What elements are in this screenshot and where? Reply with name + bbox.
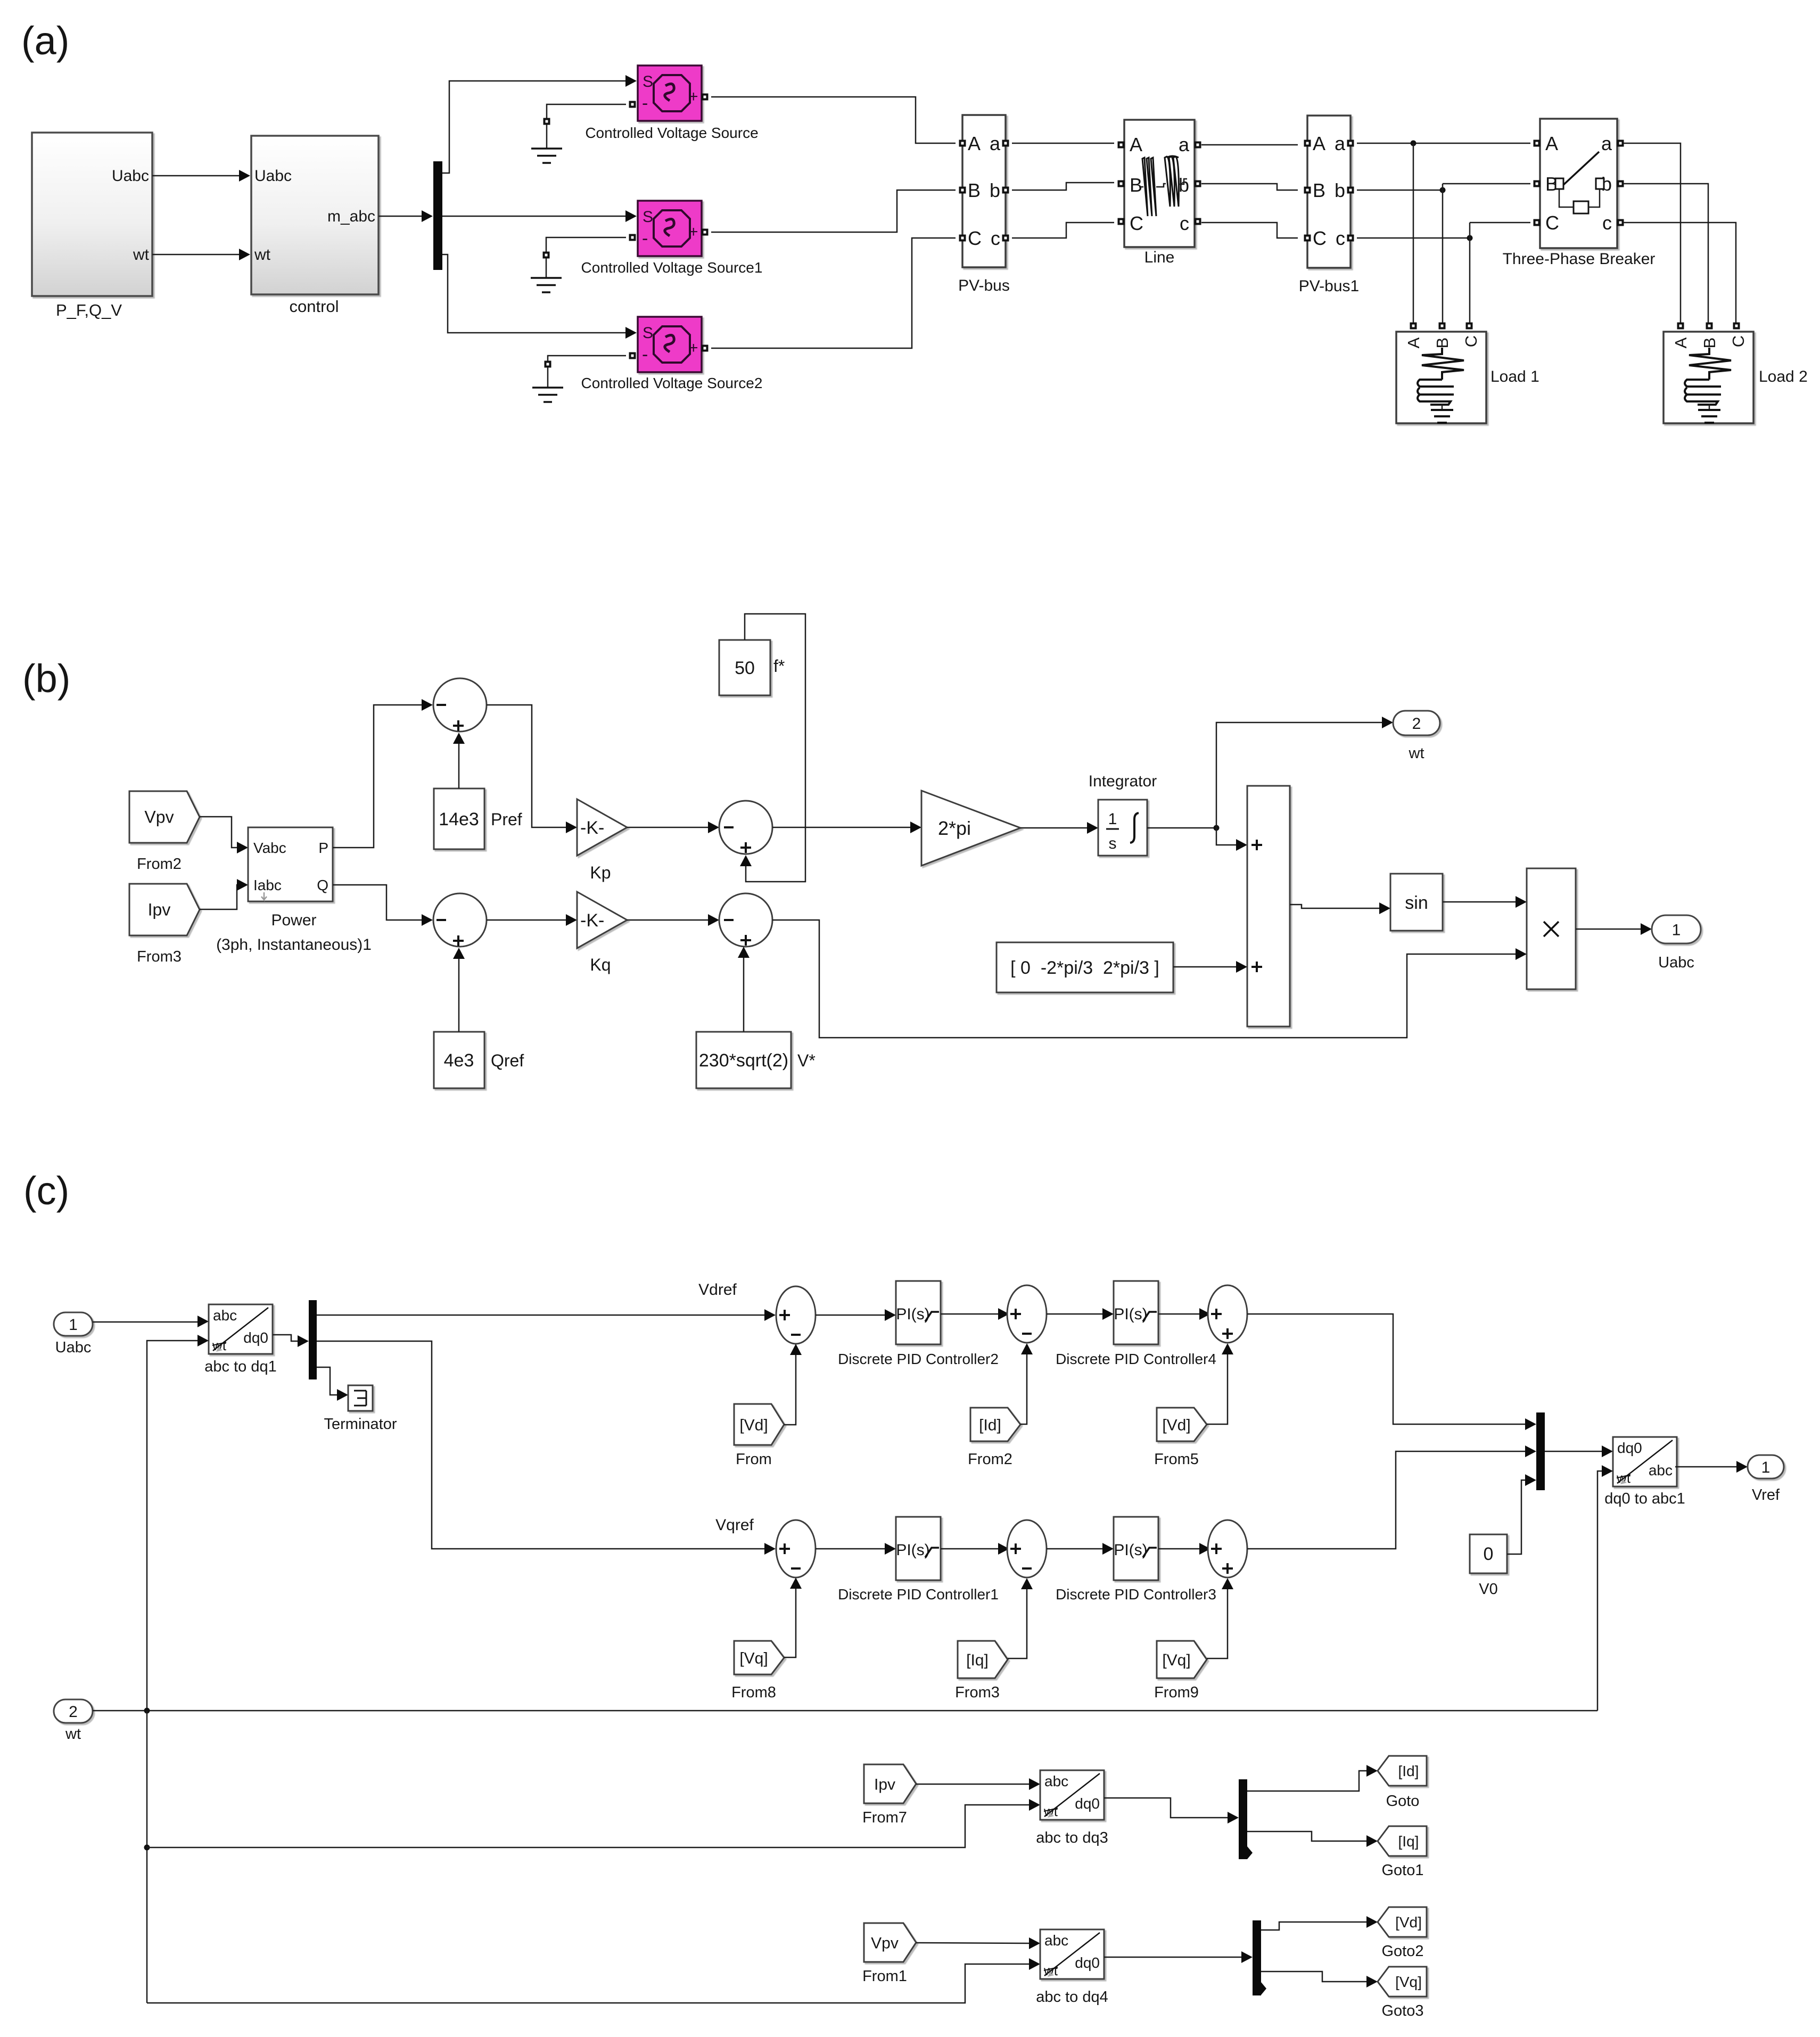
arrowhead PID1 in: [885, 1543, 896, 1555]
ground symbol 2: [531, 237, 626, 292]
arrowhead sin in: [1379, 902, 1390, 914]
svg-text:PI(s): PI(s): [896, 1305, 929, 1323]
arrowhead Goto3 Vq: [1366, 1976, 1378, 1987]
svg-text:[Iq]: [Iq]: [1398, 1833, 1419, 1850]
wire sum to sin: [1290, 905, 1381, 908]
block PV-bus: [958, 115, 1010, 294]
label Vdref: [698, 1281, 737, 1299]
svg-text:wt: wt: [133, 246, 150, 264]
sum block (wt + phase): [1247, 786, 1290, 1026]
sum junction Iq compare: [1007, 1520, 1047, 1578]
block abc to dq4: [1036, 1929, 1108, 2006]
svg-text:(c): (c): [23, 1169, 69, 1213]
wire demux to Goto3 Vq: [1261, 1972, 1368, 1982]
svg-text:a: a: [990, 133, 1001, 154]
wire CVS1 plus to PV-bus B: [711, 190, 956, 232]
wire drop to Load 1 A: [1413, 143, 1414, 323]
wire PV-bus1 c toward Breaker C: [1357, 237, 1470, 239]
wire Kp to freq sum: [627, 827, 710, 828]
svg-text:From5: From5: [1154, 1451, 1199, 1468]
wire [Id] to sum: [1020, 1353, 1027, 1424]
from tag Ipv (From7): [862, 1764, 916, 1826]
wire Breaker c to Load 2 C: [1624, 223, 1736, 323]
svg-text:Integrator: Integrator: [1089, 773, 1157, 790]
junction node wt: [1214, 825, 1220, 831]
arrowhead dq0abc wt: [1602, 1465, 1613, 1477]
wire wt P_F,Q_V to control: [152, 254, 241, 256]
junction node wt-1: [144, 1708, 150, 1714]
wire V sum to product: [772, 920, 1517, 1038]
wire wt main run: [93, 1710, 1597, 1712]
svg-text:[Vd]: [Vd]: [1395, 1914, 1422, 1931]
svg-text:dq0 to abc1: dq0 to abc1: [1604, 1490, 1685, 1507]
svg-text:Discrete PID Controller3: Discrete PID Controller3: [1056, 1586, 1216, 1603]
wire Vpv to abc to dq4: [916, 1943, 1031, 1943]
block dq0 to abc1: [1604, 1437, 1685, 1507]
arrowhead Vd sum bottom: [790, 1344, 802, 1355]
arrowhead Id sum bottom: [1021, 1343, 1033, 1354]
arrowhead PID2 in: [885, 1309, 896, 1321]
svg-text:1: 1: [1108, 810, 1117, 828]
wire P to sum1: [333, 705, 423, 848]
wire Line c to PV-bus1 C: [1201, 223, 1298, 238]
svg-text:Goto3: Goto3: [1382, 2002, 1424, 2019]
arrowhead Vref up: [738, 947, 750, 958]
svg-text:Discrete PID Controller1: Discrete PID Controller1: [838, 1586, 999, 1603]
svg-text:From2: From2: [137, 856, 182, 873]
svg-text:Load 1: Load 1: [1490, 368, 1539, 385]
arrowhead Iq sum bottom: [1021, 1578, 1033, 1589]
wire Uabc P_F,Q_V to control: [152, 175, 241, 177]
from tag [Iq] (From3): [955, 1641, 1008, 1701]
arrowhead demux c3 in: [1228, 1812, 1239, 1824]
svg-text:Vdref: Vdref: [698, 1281, 737, 1299]
svg-text:4e3: 4e3: [444, 1050, 474, 1071]
wire PID1 sum to PID3: [1047, 1548, 1104, 1550]
arrowhead dq1 wt: [197, 1335, 209, 1346]
panel label (b): [22, 656, 70, 701]
wire PV-bus c to Line C: [1012, 223, 1114, 238]
junction node a-Load1A: [1411, 141, 1417, 146]
block Power (3ph, Instantaneous)1: [216, 827, 372, 954]
junction node c-Load1C: [1467, 235, 1473, 241]
wire dq1 out to demux: [273, 1335, 299, 1341]
svg-text:control: control: [289, 297, 339, 316]
wire Line b to PV-bus1 B: [1201, 184, 1298, 190]
block abc to dq3: [1036, 1770, 1108, 1846]
svg-text:Goto: Goto: [1386, 1793, 1420, 1810]
svg-text:-: -: [642, 93, 648, 113]
wire [Iq] to sum: [1008, 1588, 1027, 1658]
from tag Ipv (From3): [129, 884, 200, 965]
wire 4e3 to sumQ: [458, 957, 460, 1032]
arrowhead demux c1 in: [298, 1335, 309, 1347]
arrowhead Goto1 Iq: [1366, 1835, 1378, 1847]
panel label (c): [23, 1169, 69, 1213]
svg-text:[Vq]: [Vq]: [1162, 1652, 1190, 1669]
block Discrete PID Controller1: [838, 1517, 999, 1603]
svg-text:From3: From3: [955, 1684, 1000, 1701]
svg-text:2*pi: 2*pi: [938, 817, 971, 839]
arrowhead mux in1: [1525, 1418, 1536, 1430]
svg-text:S: S: [643, 73, 653, 91]
svg-text:A: A: [1545, 133, 1558, 154]
block Discrete PID Controller4: [1056, 1281, 1216, 1367]
arrowhead freq sum in: [708, 822, 719, 833]
arrowhead 2*pi in: [910, 822, 921, 833]
arrowhead PID4 in: [1102, 1308, 1114, 1320]
svg-text:[Vq]: [Vq]: [739, 1650, 768, 1668]
wire demux to Vq sum: [317, 1341, 766, 1549]
arrowhead outport2: [1382, 717, 1393, 728]
arrowhead CVS2 S: [625, 327, 637, 339]
wire 230*sqrt(2) to V sum: [743, 956, 745, 1032]
outport 1 (Vref): [1748, 1455, 1784, 1504]
gain Kq: [577, 892, 627, 974]
svg-text:C: C: [1729, 335, 1748, 347]
svg-text:Ipv: Ipv: [148, 900, 171, 919]
svg-text:1: 1: [1761, 1459, 1770, 1476]
svg-text:2: 2: [1412, 715, 1421, 733]
svg-text:sin: sin: [1405, 893, 1428, 913]
svg-text:Qref: Qref: [491, 1051, 524, 1070]
svg-text:m_abc: m_abc: [327, 208, 375, 225]
svg-text:Terminator: Terminator: [324, 1416, 397, 1433]
gain Kp: [577, 799, 627, 882]
wire [Vq] to sum: [784, 1587, 796, 1657]
svg-text:abc: abc: [1044, 1932, 1068, 1949]
svg-text:Controlled Voltage Source1: Controlled Voltage Source1: [581, 259, 763, 276]
wire CVS plus to PV-bus A: [711, 97, 956, 143]
svg-text:14e3: 14e3: [439, 809, 479, 829]
inport 1 (Uabc): [54, 1312, 93, 1356]
svg-text:Line: Line: [1144, 249, 1175, 266]
wire dq0 to abc1 out: [1675, 1466, 1738, 1468]
from tag [Vd] (From5): [1154, 1408, 1207, 1468]
sum junction Vqref: [776, 1520, 816, 1578]
wire wt to phase sum: [1216, 828, 1238, 845]
svg-text:C: C: [968, 227, 982, 249]
arrowhead Kp in: [566, 822, 577, 833]
svg-text:c: c: [1336, 227, 1345, 249]
arrowhead dq4 abc: [1029, 1937, 1040, 1949]
wire 14e3 to sum1: [458, 742, 460, 788]
demux bar (Vdq): [1253, 1920, 1266, 1995]
panel label (a): [21, 19, 69, 63]
svg-text:b: b: [1179, 174, 1189, 196]
goto tag [Vq] (Goto3): [1378, 1967, 1427, 2019]
svg-text:[Iq]: [Iq]: [966, 1652, 989, 1669]
arrowhead Goto2 Vd: [1366, 1916, 1378, 1928]
svg-text:(b): (b): [22, 656, 70, 701]
svg-text:a: a: [1179, 134, 1190, 155]
svg-text:A: A: [968, 133, 981, 154]
arrowhead Iabc: [237, 879, 248, 891]
arrowhead Terminator in: [337, 1389, 348, 1401]
arrowhead Vq2 sum bottom: [1222, 1578, 1233, 1589]
wire PV-bus b to Line B: [1012, 183, 1114, 190]
wire Kq to V sum: [627, 919, 710, 921]
arrowhead sum1 in: [422, 699, 433, 711]
wire Integrator out: [1147, 827, 1216, 829]
svg-text:From7: From7: [862, 1809, 907, 1826]
port square CVS minus: [629, 101, 636, 108]
product block X: [1527, 868, 1576, 989]
wire Q to sumQ: [333, 885, 423, 920]
arrowhead dq4 wt: [1029, 1958, 1040, 1970]
arrowhead Integrator in: [1087, 822, 1098, 834]
wire Vd sum to PID2: [816, 1315, 886, 1316]
arrowhead product in1: [1516, 896, 1527, 908]
svg-text:[Vd]: [Vd]: [739, 1417, 768, 1434]
wire V0 to mux: [1507, 1480, 1527, 1554]
svg-text:50: 50: [735, 658, 755, 678]
svg-text:1: 1: [1672, 922, 1681, 939]
wire PV-bus a to Line A: [1012, 143, 1114, 144]
svg-text:B: B: [968, 179, 981, 201]
svg-text:s: s: [1109, 835, 1117, 852]
svg-text:S: S: [643, 324, 653, 342]
arrowhead sum Iq in: [998, 1543, 1009, 1555]
svg-text:abc to dq4: abc to dq4: [1036, 1989, 1108, 2006]
svg-text:A: A: [1313, 133, 1325, 154]
sum junction Vd feedforward: [1208, 1285, 1247, 1343]
wire m_abc control to demux: [378, 216, 423, 217]
demux bar (Idq): [1239, 1779, 1253, 1859]
outport 1 (Uabc): [1652, 915, 1701, 971]
from tag [Vq] (From8): [731, 1641, 784, 1701]
svg-text:B: B: [1130, 174, 1142, 196]
mux bar (dq0 combine): [1536, 1412, 1545, 1490]
subsystem block P_F,Q_V: [32, 133, 152, 319]
ground symbol 3: [532, 356, 626, 402]
wire Vq path to mux: [1247, 1451, 1527, 1549]
svg-text:A: A: [1404, 337, 1423, 348]
svg-text:From2: From2: [968, 1451, 1012, 1468]
svg-text:c: c: [991, 227, 1000, 249]
svg-text:Uabc: Uabc: [112, 167, 149, 185]
arrowhead CVS S: [625, 75, 637, 87]
junction node wt-2: [144, 1845, 150, 1851]
wire wt branch to abc to dq3: [147, 1805, 1031, 1847]
wire wt vertical: [146, 1711, 148, 2003]
wire demux to Goto1 Iq: [1247, 1831, 1368, 1841]
wire demux out2 to CVS1 S: [442, 216, 627, 217]
wire sumQ to Kq: [487, 919, 567, 921]
svg-text:From1: From1: [862, 1968, 907, 1985]
svg-text:b: b: [990, 179, 1000, 201]
svg-text:C: C: [1545, 212, 1559, 234]
svg-text:2: 2: [69, 1703, 78, 1721]
svg-text:dq0: dq0: [1617, 1440, 1642, 1456]
arrowhead Vd2 sum bottom: [1222, 1343, 1233, 1354]
from tag [Vq] (From9): [1154, 1641, 1207, 1701]
sum junction 4 (voltage): [719, 893, 772, 947]
svg-text:dq0: dq0: [243, 1329, 268, 1346]
port square CVS1 minus: [629, 234, 636, 241]
svg-text:dq0: dq0: [1075, 1954, 1100, 1971]
svg-text:-K-: -K-: [580, 910, 604, 931]
constant block [ 0 -2*pi/3 2*pi/3 ]: [997, 942, 1173, 992]
svg-text:c: c: [1180, 212, 1189, 234]
block Load 2: [1663, 323, 1808, 424]
svg-text:[Vq]: [Vq]: [1395, 1974, 1422, 1990]
svg-text:Discrete PID Controller4: Discrete PID Controller4: [1056, 1351, 1216, 1367]
port square CVS2 minus: [629, 352, 636, 359]
svg-text:[Vd]: [Vd]: [1162, 1417, 1190, 1434]
svg-text:[Id]: [Id]: [979, 1417, 1001, 1434]
gain 2*pi: [921, 791, 1020, 866]
from tag [Id] (From2): [968, 1408, 1020, 1468]
svg-text:B: B: [1700, 338, 1719, 349]
sum junction Vq feedforward: [1208, 1520, 1247, 1578]
svg-text:PV-bus1: PV-bus1: [1299, 277, 1359, 295]
wire [Vd] to sum: [784, 1353, 796, 1425]
svg-text:a: a: [1335, 133, 1346, 154]
svg-text:230*sqrt(2): 230*sqrt(2): [699, 1050, 788, 1071]
svg-text:abc: abc: [1649, 1462, 1673, 1479]
arrowhead mux in3: [1525, 1474, 1536, 1486]
block Discrete PID Controller3: [1056, 1517, 1216, 1603]
wire f* loop to freq sum plus: [745, 614, 805, 882]
svg-text:wt: wt: [254, 246, 271, 264]
label Vqref: [715, 1516, 754, 1534]
svg-text:[Id]: [Id]: [1398, 1763, 1419, 1779]
svg-text:(a): (a): [21, 19, 69, 63]
svg-text:PI(s): PI(s): [1114, 1541, 1147, 1559]
svg-text:abc: abc: [1044, 1773, 1068, 1789]
svg-text:From8: From8: [731, 1684, 776, 1701]
svg-text:+: +: [689, 88, 698, 105]
wire demux to Vd sum: [317, 1315, 766, 1316]
block Discrete PID Controller2: [838, 1281, 999, 1367]
svg-text:From: From: [736, 1451, 772, 1468]
svg-text:+: +: [689, 223, 698, 241]
goto tag [Vd] (Goto2): [1378, 1907, 1427, 1960]
wire product to outport 1: [1576, 929, 1642, 930]
sum junction 3 (Q compare): [433, 893, 487, 947]
wire riser and drop Load 1 B: [1442, 184, 1444, 323]
svg-text:(3ph, Instantaneous)1: (3ph, Instantaneous)1: [216, 936, 372, 954]
arrowhead dq3 wt: [1029, 1799, 1040, 1811]
sum junction 1 (P compare): [433, 678, 487, 732]
svg-text:Iabc: Iabc: [253, 877, 282, 893]
svg-text:Uabc: Uabc: [1658, 954, 1694, 971]
wire dq3 out to demux: [1104, 1798, 1229, 1818]
svg-text:C: C: [1462, 335, 1480, 347]
arrowhead outport Vref: [1736, 1461, 1748, 1473]
wire [Vd]2 to sum: [1207, 1353, 1228, 1424]
arrowhead sum Id in: [998, 1308, 1009, 1320]
svg-text:C: C: [1130, 212, 1143, 234]
wire PID1 to sum: [941, 1548, 1000, 1550]
wire Vq sum to PID1: [816, 1548, 886, 1550]
arrowhead 4e3 up: [453, 948, 465, 959]
wire demux out3 to CVS2 S: [442, 254, 627, 333]
svg-text:b: b: [1335, 179, 1345, 201]
svg-text:+: +: [689, 339, 698, 357]
svg-text:Pref: Pref: [491, 810, 522, 829]
arrowhead Vd sum in: [764, 1309, 776, 1321]
svg-text:wt: wt: [1409, 745, 1424, 762]
wire to outport 2 wt: [1216, 722, 1383, 828]
svg-text:Uabc: Uabc: [254, 167, 292, 185]
svg-text:dq0: dq0: [1075, 1795, 1100, 1812]
block PV-bus1: [1299, 116, 1359, 295]
wire [Vq]2 to sum: [1207, 1588, 1228, 1658]
wire Breaker b to Load 2 B: [1624, 184, 1708, 323]
wire PID3 to sum: [1158, 1548, 1201, 1550]
svg-text:Controlled Voltage Source: Controlled Voltage Source: [585, 125, 758, 141]
arrowhead CVS1 S: [625, 210, 637, 222]
wire sin to product: [1443, 901, 1517, 903]
svg-text:Kp: Kp: [590, 863, 611, 882]
block Terminator: [324, 1385, 397, 1433]
block Controlled Voltage Source2: [581, 317, 763, 391]
wire wt to dq0 to abc1: [1597, 1471, 1603, 1711]
wire phase const to sum: [1173, 966, 1238, 968]
arrowhead sumQ in: [422, 914, 433, 926]
wire Ipv to Power Iabc: [200, 885, 238, 909]
svg-text:Vpv: Vpv: [871, 1935, 899, 1952]
wire wt branch to abc to dq4: [147, 1964, 1031, 2003]
constant block 0 (V0): [1470, 1534, 1507, 1598]
wire mux to dq0 to abc1: [1545, 1451, 1603, 1452]
wire freq sum to 2*pi: [772, 827, 912, 828]
demux bar (panel a): [433, 161, 442, 270]
svg-text:wt: wt: [65, 1726, 81, 1743]
wire PV-bus1 b toward Breaker B: [1357, 190, 1443, 191]
wire to Breaker B: [1443, 183, 1530, 185]
wire PID2 to sum: [941, 1313, 1000, 1315]
wire PID2 sum to PID4: [1047, 1313, 1104, 1315]
subsystem block control: [251, 136, 378, 316]
svg-text:Power: Power: [271, 911, 316, 929]
svg-text:c: c: [1602, 212, 1612, 234]
wire PV-bus1 a to Breaker A: [1357, 143, 1530, 144]
svg-text:V*: V*: [797, 1051, 816, 1070]
block sin: [1390, 874, 1443, 931]
svg-text:Vref: Vref: [1752, 1486, 1780, 1504]
svg-text:-: -: [642, 344, 648, 365]
wire demux to Goto2 Vd: [1261, 1922, 1368, 1930]
arrowhead f* up: [740, 855, 752, 866]
svg-text:Ipv: Ipv: [874, 1776, 895, 1794]
demux bar (Uabc dq): [309, 1300, 317, 1379]
arrowhead sum Vq2 in: [1199, 1543, 1210, 1555]
svg-text:abc to dq3: abc to dq3: [1036, 1829, 1108, 1846]
constant block 50 (f*): [719, 640, 785, 695]
arrowhead V sum in: [708, 914, 719, 926]
sum junction 2 (frequency): [719, 801, 772, 854]
wire PID4 to sum: [1158, 1313, 1201, 1315]
from tag Vpv (From2): [129, 791, 200, 873]
block Controlled Voltage Source1: [581, 201, 763, 276]
svg-text:0: 0: [1484, 1544, 1494, 1564]
outport 2 (wt): [1393, 711, 1440, 762]
arrowhead phase sum in2: [1236, 961, 1247, 973]
block Load 1: [1396, 323, 1539, 424]
svg-text:a: a: [1601, 133, 1612, 154]
svg-text:B: B: [1433, 338, 1452, 349]
wire Line a to PV-bus1 A: [1201, 144, 1298, 146]
arrowhead PID3 in: [1102, 1543, 1114, 1555]
svg-text:Goto2: Goto2: [1382, 1943, 1424, 1960]
wire wt up-branch to abc to dq1: [147, 1341, 199, 1711]
svg-text:A: A: [1671, 337, 1690, 348]
block Line: [1118, 120, 1201, 266]
arrowhead phase sum in1: [1236, 839, 1247, 851]
